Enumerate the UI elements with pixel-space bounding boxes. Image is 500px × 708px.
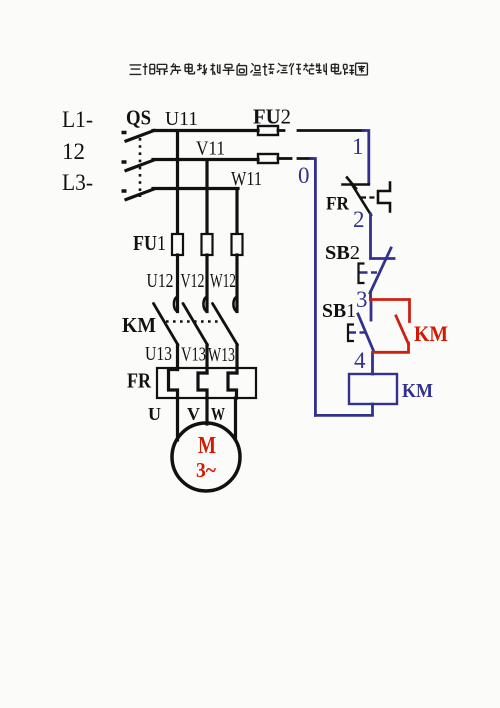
fuse FU2 lower body — [258, 154, 278, 163]
svg-text:FR: FR — [326, 194, 349, 215]
fuse FU1 U body — [172, 234, 183, 255]
button SB1 blade — [358, 314, 374, 352]
motor M circle — [172, 423, 240, 491]
svg-text:W13: W13 — [208, 344, 235, 366]
wire corner 0 down left rail — [311, 159, 315, 416]
wire U12 fuse to contact — [176, 255, 179, 312]
svg-text:M: M — [198, 433, 216, 459]
FR heater dashes — [361, 196, 377, 198]
button SB2 blade — [370, 248, 391, 293]
FR contact bar — [343, 183, 369, 186]
contact KM aux top wire — [372, 300, 410, 322]
svg-text:KM: KM — [122, 313, 156, 337]
svg-text:KM: KM — [414, 321, 448, 346]
relay FR box — [157, 368, 256, 398]
svg-text:L1-: L1- — [62, 107, 93, 132]
svg-text:2: 2 — [353, 207, 365, 232]
svg-text:W11: W11 — [231, 168, 262, 190]
fuse FU1 V body — [202, 234, 213, 255]
svg-text:W: W — [211, 404, 225, 424]
coil KM body — [349, 374, 397, 404]
svg-text:U11: U11 — [165, 108, 198, 130]
title 三相异步电动机单向连续运行控制电路图 (fake glyphs) — [130, 63, 368, 75]
wire V to motor — [205, 398, 208, 424]
button SB2 bar — [371, 257, 395, 260]
fuse FU2 upper body — [258, 126, 278, 135]
switch QS pole 1 tick — [122, 131, 127, 135]
svg-text:V12: V12 — [181, 270, 205, 292]
wire after upper fuse stub — [278, 129, 284, 132]
wire W to motor — [234, 398, 237, 439]
contactor KM blade U — [154, 304, 179, 346]
wire V13 — [205, 345, 208, 373]
contactor KM fixed arc V — [203, 297, 206, 311]
svg-text:FU1: FU1 — [133, 231, 166, 255]
FR heater bracket — [378, 183, 390, 212]
contactor KM blade W — [213, 304, 238, 346]
FR contact blade — [352, 185, 371, 216]
main wire W11 drop — [235, 189, 238, 235]
wire SB2 to node3 — [369, 292, 372, 300]
svg-text:3: 3 — [356, 287, 368, 312]
svg-text:12: 12 — [62, 139, 85, 164]
svg-text:U13: U13 — [145, 343, 172, 365]
contactor KM link dotted — [166, 320, 223, 323]
svg-text:SB2: SB2 — [325, 242, 360, 264]
contact KM aux blade — [396, 316, 409, 344]
svg-text:SB1: SB1 — [322, 300, 356, 322]
wire FR to SB2 — [369, 214, 372, 258]
wire line0 to corner — [298, 157, 312, 160]
fuse FU1 W body — [232, 234, 243, 255]
button SB2 bracket — [359, 264, 365, 284]
wire after lower fuse stub — [278, 157, 291, 160]
relay FR contact (control) — [343, 178, 391, 216]
svg-text:V13: V13 — [181, 344, 206, 366]
svg-text:KM: KM — [402, 380, 433, 402]
contactor KM fixed arc U — [174, 297, 177, 311]
wire U to motor — [176, 398, 179, 440]
switch QS pole 1 blade — [126, 131, 154, 142]
wire L3 horizontal to W11 drop — [153, 187, 238, 190]
contact KM aux bottom wire — [373, 343, 409, 352]
svg-text:0: 0 — [298, 163, 310, 188]
svg-text:V11: V11 — [196, 138, 225, 160]
switch QS mechanical link dotted — [139, 138, 142, 197]
svg-text:V: V — [187, 404, 200, 424]
switch QS pole 3 blade — [126, 189, 154, 200]
wire W12 fuse to contact — [235, 255, 238, 312]
contactor KM fixed arc W — [233, 297, 236, 311]
button SB1 dashes — [349, 331, 366, 333]
switch QS pole 2 tick — [122, 160, 127, 164]
FR contact tick — [347, 178, 356, 189]
wire W13 — [235, 345, 238, 373]
wire bottom return to coil — [315, 404, 372, 415]
button SB1 bracket — [348, 325, 354, 342]
wire corner 1 down to FR — [363, 131, 369, 184]
wire L1 horizontal to FU2 — [153, 129, 258, 132]
svg-text:L3-: L3- — [62, 170, 93, 195]
switch QS pole 3 tick — [122, 189, 127, 193]
svg-text:4: 4 — [354, 348, 366, 373]
relay FR heater V — [198, 373, 207, 398]
button SB2 dashes — [360, 271, 378, 273]
svg-text:U12: U12 — [147, 270, 174, 292]
wire node4 to coil — [371, 353, 374, 375]
svg-text:QS: QS — [126, 106, 151, 130]
svg-text:FR: FR — [127, 369, 152, 393]
button SB1 fixed wire — [370, 300, 373, 321]
relay FR heater U — [169, 370, 178, 399]
svg-text:W12: W12 — [210, 270, 236, 292]
svg-text:U: U — [148, 404, 161, 424]
contactor KM blade V — [183, 304, 208, 346]
main wire U11 drop — [176, 131, 179, 235]
relay FR heater W — [228, 373, 237, 398]
svg-text:3~: 3~ — [196, 458, 216, 482]
wire line1 to corner — [298, 129, 364, 132]
svg-text:1: 1 — [352, 134, 364, 159]
wire V12 fuse to contact — [205, 255, 208, 312]
switch QS pole 2 blade — [126, 160, 154, 171]
wire U13 — [176, 345, 179, 370]
main wire V11 drop — [205, 160, 208, 235]
wire L2 horizontal to FU2 — [153, 158, 258, 161]
